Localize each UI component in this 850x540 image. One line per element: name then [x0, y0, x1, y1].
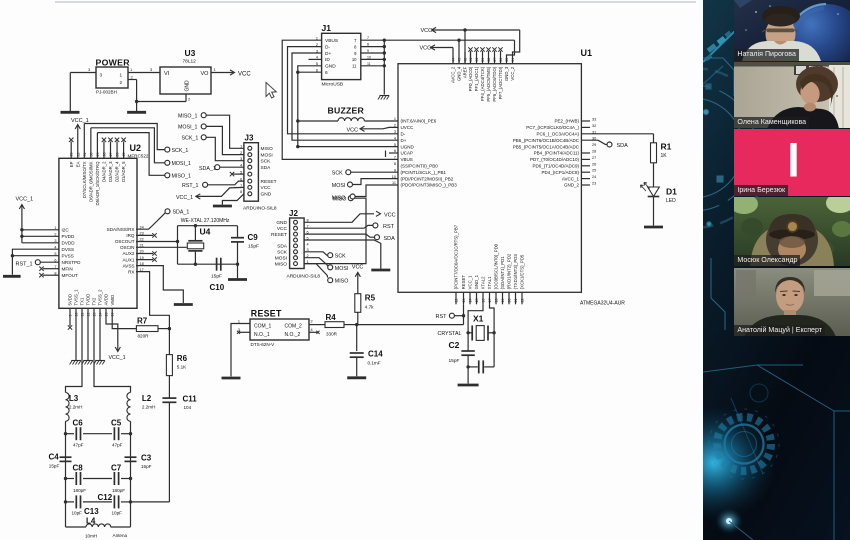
- ground RESET: [222, 377, 241, 380]
- svg-text:MOSI: MOSI: [275, 256, 287, 262]
- junction row3 left: [64, 500, 67, 503]
- no-connect U1 top pin: [476, 51, 478, 64]
- svg-text:D7/SCLK/MISO/TX: D7/SCLK/MISO/TX: [82, 161, 87, 198]
- svg-text:U3: U3: [185, 48, 196, 58]
- participant tile: Ірина Березюк: [734, 129, 850, 196]
- resistor R1 1K: [651, 143, 657, 163]
- svg-text:AVSS: AVSS: [123, 263, 135, 268]
- svg-text:MFOUT: MFOUT: [62, 273, 79, 278]
- svg-text:6: 6: [54, 258, 56, 262]
- svg-text:4: 4: [311, 328, 313, 332]
- net MOSI at J2: [304, 258, 328, 266]
- svg-text:(PDI/PCINT2/MOSII)_PB2: (PDI/PCINT2/MOSII)_PB2: [401, 176, 454, 181]
- junction C9/C10/ground: [236, 263, 239, 266]
- wire net MISO_1 from U2 D5: [96, 133, 98, 159]
- svg-text:SCK_1: SCK_1: [172, 148, 189, 154]
- svg-text:SCK: SCK: [332, 171, 343, 177]
- capacitor C8 180pF: [75, 472, 77, 485]
- svg-text:PC6_(_OC3A/OC4A): PC6_(_OC3A/OC4A): [536, 132, 579, 137]
- no-connect U2 top pin: [123, 142, 125, 159]
- svg-text:104: 104: [184, 405, 192, 410]
- junction R4/R5/C14: [355, 323, 358, 326]
- svg-text:1K: 1K: [661, 153, 668, 159]
- inductor L3 2.2mH: [66, 393, 70, 422]
- svg-text:GND: GND: [276, 220, 287, 226]
- capacitor C3 15pF: [125, 456, 137, 458]
- svg-text:7: 7: [54, 265, 56, 269]
- svg-text:RESET: RESET: [461, 275, 466, 290]
- svg-text:J2: J2: [289, 209, 298, 218]
- svg-text:NRSTPD: NRSTPD: [62, 260, 82, 265]
- svg-text:PE2_(HWB): PE2_(HWB): [554, 119, 579, 124]
- svg-text:AUX2: AUX2: [122, 251, 134, 256]
- svg-text:D4/ADR_2: D4/ADR_2: [102, 161, 107, 182]
- stub U1 top AREF/GND: [464, 52, 466, 64]
- svg-text:ATMEGA32U4-AUR: ATMEGA32U4-AUR: [580, 301, 625, 307]
- svg-text:6: 6: [240, 178, 242, 182]
- junction rail B: [457, 39, 460, 42]
- svg-text:UVCC: UVCC: [401, 125, 415, 130]
- svg-text:10pF: 10pF: [72, 511, 83, 516]
- svg-text:MOSI: MOSI: [332, 183, 346, 189]
- power flag VCC_1 (down arrow): [115, 347, 120, 352]
- junction C2/C1: [466, 365, 469, 368]
- no-connect U1 top pin: [494, 51, 496, 64]
- svg-text:L3: L3: [69, 394, 79, 403]
- junction crystal right: [492, 331, 495, 334]
- resistor R5 4.7k: [355, 294, 361, 313]
- ground J2: [371, 269, 390, 272]
- svg-text:2.2mH: 2.2mH: [69, 405, 83, 410]
- svg-text:4.7k: 4.7k: [365, 305, 374, 310]
- svg-text:C7: C7: [111, 464, 122, 473]
- wire U2 pin4 DVSS: [12, 249, 59, 256]
- svg-text:SDA: SDA: [261, 165, 272, 171]
- svg-text:SCK_1: SCK_1: [182, 136, 199, 142]
- no-connect U2 pin9 5VDD: [69, 308, 71, 326]
- net MISO at J2 (lower): [304, 264, 328, 278]
- svg-text:11: 11: [352, 64, 357, 69]
- wire junction to C14: [356, 325, 358, 352]
- svg-text:PF5_(ADC5/TMS): PF5_(ADC5/TMS): [486, 66, 491, 101]
- svg-text:MFRC522: MFRC522: [128, 154, 149, 159]
- wire net SCK_1 from U2 D7: [83, 124, 85, 159]
- svg-text:LED: LED: [666, 198, 676, 204]
- svg-text:U2: U2: [130, 143, 142, 153]
- svg-text:PJ-002BH: PJ-002BH: [96, 90, 117, 95]
- wire J1 GND to U1 UGND: [298, 66, 398, 147]
- capacitor C7 180pF: [113, 472, 115, 485]
- wire rail A corner to VCC_2: [513, 30, 520, 64]
- svg-text:(OC0B/SCL/INT0)_PD0: (OC0B/SCL/INT0)_PD0: [494, 243, 499, 289]
- svg-text:(SDA/INT1)_PD1: (SDA/INT1)_PD1: [500, 256, 505, 290]
- svg-text:SDA/NSS/RX: SDA/NSS/RX: [107, 227, 135, 232]
- junction RESET/RST: [462, 314, 465, 317]
- svg-text:VCC: VCC: [384, 213, 396, 219]
- window top border line: [55, 1, 696, 3]
- net SDA at J2: [304, 234, 374, 237]
- svg-text:VMID: VMID: [110, 295, 115, 306]
- svg-text:820R: 820R: [138, 334, 150, 339]
- svg-text:7: 7: [354, 38, 357, 43]
- svg-text:SCK: SCK: [277, 250, 288, 256]
- svg-text:COM_2: COM_2: [285, 323, 302, 329]
- wire U2 AVDD to VCC_1: [106, 308, 118, 344]
- svg-text:SCK: SCK: [261, 159, 272, 165]
- participant tile: Олена Каменщикова: [734, 62, 850, 128]
- svg-text:MFIN: MFIN: [62, 266, 73, 271]
- svg-text:MOSI_1: MOSI_1: [178, 125, 197, 131]
- svg-text:U1: U1: [581, 48, 593, 58]
- power flag VCC at J2: [376, 211, 381, 216]
- wire J1 VBUS to U1 VBUS: [282, 40, 398, 159]
- svg-text:X1: X1: [473, 314, 484, 324]
- svg-text:(PCINT7/OC0A/OC1C/RTS)_PB7: (PCINT7/OC0A/OC1C/RTS)_PB7: [454, 224, 459, 289]
- capacitor C2 15pF: [461, 350, 474, 352]
- stubs U1 right pins: [581, 120, 590, 122]
- no-connect U2 top pin: [110, 142, 112, 159]
- ground J1 shield (hatch): [380, 95, 390, 97]
- svg-text:29: 29: [592, 143, 596, 147]
- svg-text:5.1K: 5.1K: [177, 365, 187, 370]
- ground AVSS: [174, 303, 193, 306]
- svg-text:PB4_(PCINT4/ADC11): PB4_(PCINT4/ADC11): [534, 151, 580, 156]
- svg-text:MISO: MISO: [335, 279, 349, 285]
- net SDA at U1 PC6: [581, 139, 598, 141]
- svg-text:RST: RST: [383, 224, 395, 230]
- svg-text:SDA_1: SDA_1: [199, 166, 216, 172]
- junction J1 pin5/6: [296, 71, 299, 74]
- svg-text:D6/ADR_0/MOSI/MX: D6/ADR_0/MOSI/MX: [88, 161, 93, 201]
- svg-text:VBUS: VBUS: [401, 157, 413, 162]
- svg-text:D+: D+: [401, 138, 407, 143]
- junction rail A: [463, 28, 466, 31]
- svg-text:AVCC_2: AVCC_2: [451, 66, 456, 83]
- svg-text:MOSI: MOSI: [261, 152, 273, 158]
- svg-text:2: 2: [240, 151, 242, 155]
- svg-text:SDA_1: SDA_1: [173, 210, 190, 216]
- wire C14 to ground: [356, 357, 358, 376]
- wire U2 pin18 AVSS to ground: [136, 266, 183, 303]
- ground D1: [644, 226, 663, 229]
- svg-text:D1/ADR_5: D1/ADR_5: [121, 161, 126, 182]
- svg-text:MISO: MISO: [332, 196, 346, 202]
- svg-text:D1: D1: [666, 187, 677, 197]
- no-connect U2 pin19 AUX1: [136, 259, 153, 261]
- svg-text:SDA: SDA: [617, 143, 629, 149]
- wire J2 pin5 to ground: [304, 240, 381, 269]
- svg-text:(XCK1/CTS)_PD5: (XCK1/CTS)_PD5: [520, 254, 525, 289]
- svg-text:DVSS: DVSS: [62, 247, 75, 252]
- svg-text:R4: R4: [326, 313, 337, 322]
- svg-text:3: 3: [240, 157, 242, 161]
- svg-text:C11: C11: [183, 395, 198, 404]
- svg-text:VBUS: VBUS: [325, 38, 338, 44]
- net SCK at J2: [304, 252, 328, 255]
- svg-text:(PCINT1/SCLK_)_PB1: (PCINT1/SCLK_)_PB1: [401, 170, 447, 175]
- no-connect U2 top pin: [116, 142, 118, 159]
- svg-text:AUX1: AUX1: [122, 257, 134, 262]
- svg-text:C12: C12: [98, 493, 113, 502]
- svg-text:SCK: SCK: [335, 254, 346, 260]
- svg-text:U4: U4: [200, 227, 211, 237]
- wire antenna row2: [66, 478, 75, 480]
- svg-text:15pF: 15pF: [49, 464, 60, 469]
- stub U1 UCAP: [389, 152, 398, 154]
- svg-text:RST_1: RST_1: [16, 262, 33, 268]
- svg-text:47pF: 47pF: [112, 443, 123, 448]
- svg-text:Antena: Antena: [113, 533, 128, 538]
- junction UGND wire: [296, 145, 299, 148]
- capacitor C14 0.1mF: [350, 352, 364, 354]
- svg-text:VCC_1: VCC_1: [176, 195, 193, 201]
- wire U2 pin2 PVDD: [22, 235, 59, 237]
- svg-text:XTAL2: XTAL2: [481, 276, 486, 289]
- svg-text:VCC_2: VCC_2: [510, 66, 515, 80]
- svg-text:RST_1: RST_1: [182, 183, 199, 189]
- svg-text:D+: D+: [325, 51, 331, 57]
- wire antenna right rail: [130, 421, 132, 527]
- svg-text:CRYSTAL: CRYSTAL: [438, 331, 462, 337]
- wire U2 VMID to R7: [112, 308, 136, 328]
- svg-text:VI: VI: [164, 71, 170, 77]
- svg-text:MOSI: MOSI: [335, 266, 349, 272]
- no-connect U2 pin7 MFIN: [43, 268, 59, 270]
- junction OSCOUT: [176, 240, 179, 243]
- svg-text:I2C: I2C: [62, 228, 70, 233]
- svg-text:GND: GND: [185, 80, 191, 92]
- no-connect U1 top pin: [488, 51, 490, 64]
- wire U2 pin17 RX: [136, 272, 169, 329]
- svg-text:VCC_1: VCC_1: [468, 275, 473, 289]
- no-connect U2 pin20 AUX2: [136, 253, 153, 255]
- svg-text:D3/ADR_3: D3/ADR_3: [108, 161, 113, 182]
- net RST at J2: [304, 225, 373, 228]
- svg-text:RESET: RESET: [271, 232, 287, 238]
- svg-text:R6: R6: [177, 354, 188, 363]
- svg-text:COM_1: COM_1: [254, 323, 271, 329]
- junction row2 left: [64, 477, 67, 480]
- svg-text:C8: C8: [73, 464, 84, 473]
- wire J1 D+ to U1 D+: [292, 53, 398, 140]
- svg-text:GND_4: GND_4: [457, 66, 462, 81]
- svg-text:10: 10: [352, 57, 357, 62]
- no-connect U2 pin8 MFOUT: [43, 274, 59, 276]
- svg-text:C4: C4: [49, 453, 60, 462]
- wire R7 to junction: [158, 328, 169, 330]
- svg-text:ARDUINO-SIL8: ARDUINO-SIL8: [287, 274, 321, 280]
- wire U2 TX1 to L3: [66, 308, 83, 392]
- junction row3 right: [129, 500, 132, 503]
- no-connect U2 top pin EP: [70, 142, 72, 159]
- wire U2 TX2 to L2: [94, 308, 131, 392]
- svg-text:1: 1: [214, 67, 217, 72]
- wire rail C to AVCC_2: [452, 48, 454, 64]
- wire R6 to C11: [168, 376, 170, 398]
- junction R7/R6/RX: [168, 327, 171, 330]
- svg-text:XTAL1: XTAL1: [487, 276, 492, 289]
- svg-text:(PDO/PCINT3/MISO_)_PB3: (PDO/PCINT3/MISO_)_PB3: [401, 183, 458, 188]
- ground crystal: [458, 384, 479, 387]
- svg-text:RESET: RESET: [261, 179, 277, 185]
- net SCK_1 connector: [165, 147, 170, 152]
- svg-text:OSCOUT: OSCOUT: [115, 239, 135, 244]
- wire U2 pin21 OSCIN to crystal: [136, 246, 187, 248]
- svg-text:1: 1: [54, 226, 56, 230]
- svg-text:PF7_(ADC7/TDI): PF7_(ADC7/TDI): [498, 66, 503, 99]
- capacitor C1 (load): [468, 366, 478, 368]
- svg-text:EP: EP: [69, 161, 74, 167]
- wire U2 TVSS_2 to ground: [99, 308, 101, 360]
- svg-text:R7: R7: [137, 317, 148, 326]
- ground J3: [213, 205, 232, 208]
- svg-text:C5: C5: [111, 419, 122, 428]
- svg-text:EA: EA: [75, 161, 80, 167]
- svg-text:15pF: 15pF: [141, 464, 152, 469]
- svg-text:GND_1: GND_1: [474, 274, 479, 289]
- svg-text:PB5_(PCINT5/OC1A/OC4B/ADC: PB5_(PCINT5/OC1A/OC4B/ADC: [513, 144, 580, 149]
- svg-text:PF0_(ADC0): PF0_(ADC0): [468, 66, 473, 91]
- no-connect U2 pin23 IRQ: [136, 234, 153, 236]
- no-connect J3 pin5: [233, 173, 244, 175]
- net SDA_1 at U2 pin24: [165, 209, 170, 214]
- wire C2 to ground: [467, 355, 469, 383]
- capacitor C11 104: [162, 397, 176, 399]
- svg-text:J1: J1: [322, 23, 332, 33]
- no-connect U1 top pin: [470, 51, 472, 64]
- participant tile: Анатолій Мацуй | Експерт: [734, 268, 850, 337]
- svg-text:POWER: POWER: [96, 58, 131, 68]
- wire U2 pin1 I2C: [22, 229, 59, 231]
- svg-text:PD7_(T0/OC4D/ADC10): PD7_(T0/OC4D/ADC10): [530, 157, 580, 162]
- capacitor C13 10pF: [75, 495, 77, 508]
- junction U2 pin4/5: [11, 254, 14, 257]
- svg-text:10mH: 10mH: [85, 534, 97, 539]
- svg-text:10pF: 10pF: [112, 511, 123, 516]
- wire J1 D- to U1 D-: [288, 47, 399, 134]
- mouse cursor: [266, 83, 276, 99]
- svg-text:9: 9: [354, 51, 357, 56]
- svg-text:78L12: 78L12: [183, 59, 197, 65]
- svg-text:(INT.6/AIN0)_PE6: (INT.6/AIN0)_PE6: [401, 119, 437, 124]
- resistor R7 820R: [136, 326, 158, 332]
- resistor R6 5.1K: [166, 355, 172, 376]
- svg-text:MISO: MISO: [261, 146, 274, 152]
- capacitor C12 10pF: [113, 495, 115, 508]
- wire RESET net to U1: [357, 324, 464, 326]
- wire C11 to antenna row3: [168, 403, 170, 502]
- svg-text:N.O._1: N.O._1: [254, 332, 270, 338]
- svg-text:5: 5: [240, 171, 242, 175]
- svg-text:PF4_(ADC4/TCK): PF4_(ADC4/TCK): [480, 66, 485, 101]
- svg-text:330R: 330R: [326, 332, 338, 337]
- capacitor C4 15pF: [60, 456, 72, 458]
- svg-text:MISO_1: MISO_1: [178, 114, 197, 120]
- resistor R4 330R: [325, 322, 344, 328]
- svg-text:3: 3: [88, 67, 91, 72]
- desktop wallpaper: [703, 0, 850, 540]
- junction VCC_1 / U2 pin1: [20, 228, 23, 231]
- wires J1 shield pins 7-11: [361, 39, 385, 41]
- svg-text:TX1: TX1: [80, 297, 85, 305]
- wire rail A to AREF: [464, 30, 466, 64]
- svg-text:J3: J3: [245, 134, 254, 143]
- svg-text:33: 33: [592, 118, 596, 122]
- svg-text:8: 8: [394, 162, 396, 166]
- svg-text:DTS-62N-V: DTS-62N-V: [251, 342, 276, 347]
- svg-text:25: 25: [592, 169, 596, 173]
- svg-text:GND_2: GND_2: [564, 183, 580, 188]
- junction row1 left: [64, 432, 67, 435]
- ground C14: [347, 376, 366, 379]
- svg-text:1: 1: [238, 319, 240, 323]
- wire antenna row3: [66, 501, 75, 503]
- svg-text:MISO: MISO: [275, 261, 288, 267]
- wire rail B corner to GND_3: [507, 40, 515, 64]
- participant tile: Наталія Пирогова: [734, 0, 850, 61]
- net MISO_1 connector: [165, 173, 170, 178]
- svg-text:C13: C13: [84, 507, 99, 516]
- junction row2 right: [129, 477, 132, 480]
- wire D1 to ground: [653, 197, 655, 226]
- svg-text:VCC: VCC: [277, 226, 288, 232]
- svg-text:UCAP: UCAP: [401, 151, 414, 156]
- wire J3 pin8 GND to ground: [222, 194, 244, 205]
- svg-text:4: 4: [240, 164, 242, 168]
- svg-text:R5: R5: [365, 294, 376, 303]
- svg-text:VO: VO: [201, 71, 210, 77]
- no-connect U1 top pin: [500, 51, 502, 64]
- svg-text:3: 3: [54, 239, 56, 243]
- stubs U1 bottom pins: [455, 292, 457, 304]
- wire U2 pin3 DVDD: [22, 242, 59, 244]
- svg-text:PB6_(PCINT6/OC1B/OC4B/ADC: PB6_(PCINT6/OC1B/OC4B/ADC: [513, 138, 580, 143]
- svg-text:L4: L4: [86, 517, 96, 526]
- junction crystal left: [466, 331, 469, 334]
- svg-text:IRQ: IRQ: [126, 233, 135, 238]
- net MOSI_1 connector: [165, 160, 170, 165]
- svg-text:TVDD: TVDD: [86, 294, 91, 306]
- no-connect U2 top pin: [103, 142, 105, 159]
- svg-text:AVCC_1: AVCC_1: [562, 176, 580, 181]
- svg-text:RST: RST: [436, 314, 448, 320]
- junction UGND/buzzer: [296, 119, 299, 122]
- svg-text:WE-XTAL 27.120MHz: WE-XTAL 27.120MHz: [181, 218, 230, 224]
- svg-text:C10: C10: [210, 283, 225, 292]
- svg-text:VCC: VCC: [420, 46, 432, 52]
- svg-text:4: 4: [307, 242, 309, 246]
- svg-text:4: 4: [54, 245, 56, 249]
- svg-text:8: 8: [240, 190, 242, 194]
- svg-text:(TXD1/INT3)_PD3: (TXD1/INT3)_PD3: [513, 254, 518, 290]
- wire net MOSI_1 from U2 D6: [90, 128, 92, 159]
- no-connect U1 top pin: [482, 51, 484, 64]
- wire J1 pin6: [298, 71, 322, 73]
- ground U4: [237, 264, 239, 278]
- svg-text:VCC_1: VCC_1: [16, 197, 34, 203]
- svg-text:MOSI_1: MOSI_1: [172, 161, 191, 167]
- svg-text:VCC: VCC: [352, 265, 364, 271]
- svg-text:0.1mF: 0.1mF: [368, 361, 381, 366]
- svg-text:15pF: 15pF: [211, 274, 222, 280]
- svg-text:1: 1: [130, 67, 133, 72]
- svg-text:2: 2: [54, 233, 56, 237]
- wire junction to R6: [168, 329, 170, 355]
- wire J2 pin8 to VCC: [304, 214, 374, 223]
- svg-text:VCC: VCC: [261, 185, 272, 191]
- svg-text:PF1_(ADC1): PF1_(ADC1): [474, 66, 479, 91]
- ground POWER left: [61, 111, 80, 114]
